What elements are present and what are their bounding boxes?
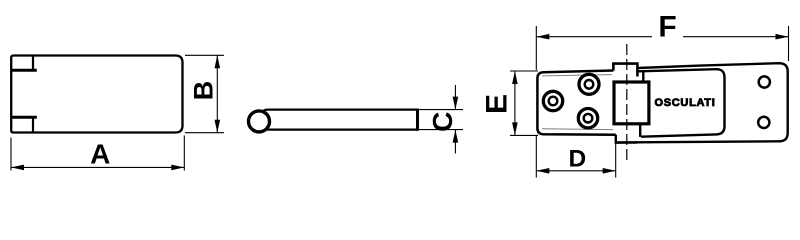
hole right-top <box>759 76 770 87</box>
svg-text:D: D <box>568 146 586 173</box>
dim C line upper <box>454 85 456 110</box>
left leaf plate outline <box>537 71 615 135</box>
left leaf top knuckle tab <box>613 64 637 77</box>
svg-text:B: B <box>189 81 219 101</box>
dim F line <box>536 36 788 38</box>
dim D arrow right <box>603 168 616 174</box>
bottom notch tab <box>11 117 37 132</box>
dim A arrow left <box>11 165 24 171</box>
plate body outline <box>11 56 182 133</box>
leaf step above knuckle <box>642 71 644 82</box>
dim E line <box>514 71 516 135</box>
dim F extension lines <box>536 26 788 70</box>
screw hole top (ringed) <box>579 74 599 94</box>
dim D arrow left <box>536 168 549 174</box>
dim F arrow left <box>536 34 549 40</box>
dim E extension lines <box>510 71 538 135</box>
dim B extension lines <box>185 55 224 132</box>
dim B line <box>216 55 218 132</box>
screw hole left (ringed) <box>543 91 562 110</box>
hinge pin centerline <box>626 44 628 160</box>
screw hole bottom (ringed) <box>578 109 597 128</box>
left leaf bottom knuckle tab <box>616 135 638 143</box>
right leaf raised panel <box>639 69 725 137</box>
svg-text:F: F <box>658 11 676 44</box>
dim B arrow bottom <box>215 120 221 133</box>
svg-text:A: A <box>90 138 110 169</box>
dim C extension lines <box>419 110 463 130</box>
dim E arrow bottom <box>512 122 518 135</box>
dim A line <box>11 166 184 168</box>
top notch tab <box>11 56 37 71</box>
dim C arrow bottom (outside, pointing up) <box>453 130 459 143</box>
dim C arrow top (outside, pointing down) <box>453 97 459 110</box>
svg-text:OSCULATI: OSCULATI <box>654 97 715 109</box>
left leaf faint panel bottom line <box>542 128 613 131</box>
dim B arrow top <box>215 55 221 68</box>
dim D extension lines <box>536 136 615 178</box>
hinge eye circle <box>249 111 270 132</box>
bar outline <box>262 110 418 130</box>
dim A arrow right <box>171 165 184 171</box>
dim D line <box>536 170 615 172</box>
dim C line lower <box>454 130 456 154</box>
svg-text:C: C <box>427 112 458 132</box>
dim E arrow top <box>512 71 518 84</box>
dim F arrow right <box>776 34 789 40</box>
hinge knuckle <box>614 82 649 124</box>
dim A extension lines <box>11 136 184 171</box>
left leaf faint panel top line <box>542 75 612 76</box>
svg-text:E: E <box>480 94 513 114</box>
bar right end edge <box>416 109 419 131</box>
right leaf plate outline <box>616 63 788 142</box>
hole right-bottom <box>758 117 769 128</box>
leaf step below knuckle <box>639 124 641 137</box>
